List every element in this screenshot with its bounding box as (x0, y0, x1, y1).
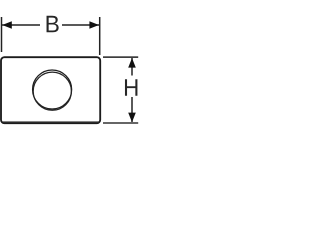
button inner circle (33, 72, 71, 110)
arrowhead B left (2, 21, 12, 29)
dimension line B left segment (2, 24, 40, 26)
extension line right (B) (99, 17, 101, 55)
dimension line H lower segment (131, 97, 133, 122)
arrowhead H bottom (128, 113, 136, 123)
label H (125, 79, 137, 96)
arrowhead H top (128, 58, 136, 68)
button ring outer circle (33, 70, 72, 109)
plate bottom shadow edge (3, 121, 99, 123)
arrowhead B right (89, 21, 99, 29)
extension line bottom (H) (103, 122, 138, 124)
extension line left (B) (1, 17, 3, 52)
extension line top (H) (103, 56, 138, 58)
dimension line H upper segment (131, 58, 133, 76)
dimension line B right segment (62, 24, 99, 26)
label B (47, 16, 59, 33)
plate outline (1, 57, 100, 123)
